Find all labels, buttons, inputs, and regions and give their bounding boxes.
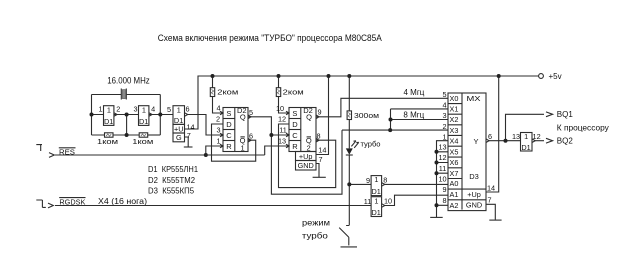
junction X7 bbox=[435, 171, 439, 175]
svg-text:D1: D1 bbox=[521, 143, 530, 152]
svg-text:3: 3 bbox=[442, 111, 446, 120]
junction 8MHz/C input bbox=[269, 133, 273, 137]
ground G of D1.3 bbox=[184, 137, 193, 147]
svg-text:5: 5 bbox=[167, 105, 171, 114]
wire +Up FF2 bbox=[316, 76, 329, 155]
svg-text:Схема включения режима "ТУРБО": Схема включения режима "ТУРБО" процессор… bbox=[158, 33, 382, 43]
svg-text:2: 2 bbox=[116, 105, 120, 114]
switch SA1 bbox=[302, 184, 357, 247]
svg-text:A2: A2 bbox=[450, 201, 459, 210]
svg-text:2ком: 2ком bbox=[283, 88, 304, 97]
wire 4MHz: Q2 to X0 bbox=[316, 98, 448, 117]
svg-text:Y: Y bbox=[473, 137, 478, 146]
resistor R5 300ом bbox=[347, 76, 379, 148]
junction rail/+Up D2.2 bbox=[327, 74, 331, 78]
svg-text:G: G bbox=[176, 133, 182, 142]
wire 8MHz: Q1 to C2 and X1-X3 bbox=[248, 117, 342, 194]
svg-text:Q: Q bbox=[240, 113, 246, 122]
wire X2 bbox=[391, 119, 449, 121]
wire osc left vertical bbox=[91, 95, 93, 136]
resistor R1 1ком bbox=[92, 133, 140, 146]
svg-text:D1: D1 bbox=[139, 117, 148, 126]
junction A2 bbox=[435, 203, 439, 207]
flip-flop D2.2 bbox=[276, 104, 326, 170]
svg-text:1: 1 bbox=[216, 137, 220, 146]
junction X3 bbox=[388, 128, 392, 132]
svg-text:6: 6 bbox=[488, 132, 492, 141]
wire +Up D3 bbox=[486, 76, 499, 192]
svg-text:8: 8 bbox=[442, 196, 446, 205]
svg-text:MX: MX bbox=[467, 94, 481, 103]
svg-text:Q: Q bbox=[306, 113, 312, 122]
svg-text:7: 7 bbox=[187, 131, 191, 140]
svg-text:BQ1: BQ1 bbox=[557, 110, 574, 119]
svg-text:14: 14 bbox=[487, 183, 495, 192]
svg-text:4 Мгц: 4 Мгц bbox=[404, 88, 425, 97]
wire X3 bbox=[342, 129, 448, 131]
svg-text:1ком: 1ком bbox=[132, 137, 153, 146]
wire osc right vertical bbox=[159, 95, 161, 136]
node turbo bbox=[347, 182, 351, 186]
svg-text:A1: A1 bbox=[450, 190, 459, 199]
svg-text:5: 5 bbox=[442, 90, 446, 99]
svg-text:режим: режим bbox=[302, 217, 330, 227]
wire C input FF2 bbox=[271, 134, 289, 136]
svg-text:X4: X4 bbox=[450, 136, 459, 145]
wire D2.2 D feedback loop bbox=[279, 124, 336, 188]
svg-text:11: 11 bbox=[279, 126, 287, 135]
svg-text:3: 3 bbox=[133, 105, 137, 114]
node turbo: to inverter input bbox=[349, 183, 371, 185]
svg-text:1: 1 bbox=[98, 105, 102, 114]
junction osc left bbox=[90, 113, 94, 117]
wire osc main bbox=[92, 114, 174, 116]
svg-text:D1 КР555ЛН1: D1 КР555ЛН1 bbox=[148, 165, 199, 174]
parts list bbox=[148, 165, 199, 195]
wire osc mid vertical bbox=[126, 115, 128, 136]
inverter D1.3 buffer bbox=[167, 105, 195, 143]
svg-text:8: 8 bbox=[383, 176, 387, 185]
svg-text:X3: X3 bbox=[450, 126, 459, 135]
svg-text:+Up: +Up bbox=[299, 152, 313, 161]
svg-text:BQ2: BQ2 bbox=[557, 137, 574, 146]
svg-text:X5: X5 bbox=[450, 147, 459, 156]
junction X6 bbox=[435, 161, 439, 165]
wire Y output bbox=[489, 140, 521, 142]
svg-text:турбо: турбо bbox=[302, 230, 328, 240]
wire 8MHz bus X1-X3 bbox=[390, 109, 392, 130]
junction Y/BQ1 bbox=[504, 139, 508, 143]
svg-text:10: 10 bbox=[276, 104, 284, 113]
svg-text:11: 11 bbox=[439, 164, 447, 173]
svg-text:X6: X6 bbox=[450, 158, 459, 167]
wire D2.1 R input bbox=[206, 146, 223, 155]
svg-text:C: C bbox=[226, 131, 232, 140]
wire pin6 to C inputs bbox=[188, 115, 224, 136]
wire LED to node bbox=[348, 155, 350, 184]
svg-text:R: R bbox=[226, 142, 232, 151]
svg-text:7: 7 bbox=[488, 195, 492, 204]
svg-text:4: 4 bbox=[442, 101, 446, 110]
flip-flop D2.1 bbox=[216, 104, 253, 153]
+5v terminal bbox=[539, 72, 562, 81]
LED турбо bbox=[346, 139, 381, 155]
svg-text:3: 3 bbox=[216, 126, 220, 135]
svg-text:2: 2 bbox=[216, 115, 220, 124]
svg-text:4: 4 bbox=[216, 104, 220, 113]
wire BQ1 branch bbox=[506, 114, 545, 140]
svg-text:13: 13 bbox=[278, 137, 286, 146]
inverter D1.2 bbox=[133, 105, 155, 127]
svg-text:X0: X0 bbox=[450, 94, 459, 103]
svg-text:9: 9 bbox=[442, 185, 446, 194]
svg-text:14: 14 bbox=[318, 145, 326, 154]
wire BQ2 bbox=[535, 140, 544, 142]
ground GND FF2 bbox=[313, 164, 326, 178]
svg-text:1: 1 bbox=[442, 132, 446, 141]
junction rail/R3 bbox=[211, 74, 215, 78]
svg-text:10: 10 bbox=[384, 197, 392, 206]
svg-text:S: S bbox=[226, 109, 231, 118]
svg-text:R: R bbox=[292, 142, 298, 151]
+5v rail wire bbox=[185, 76, 539, 129]
svg-text:D3: D3 bbox=[469, 172, 479, 181]
svg-text:+5v: +5v bbox=[549, 72, 562, 81]
wire X4 tie bbox=[437, 141, 449, 217]
svg-text:2: 2 bbox=[442, 122, 446, 131]
inverter D1.5 bbox=[364, 196, 392, 217]
crystal ZQ1 16.000 MHz bbox=[92, 75, 161, 99]
inverter D1.4 bbox=[366, 175, 387, 196]
svg-text:1: 1 bbox=[241, 143, 245, 152]
svg-text:1: 1 bbox=[374, 196, 378, 205]
wire X1 bbox=[391, 108, 449, 110]
inverter D1.6 bbox=[512, 132, 541, 152]
svg-text:1ком: 1ком bbox=[97, 137, 118, 146]
svg-text:12: 12 bbox=[533, 132, 541, 141]
svg-text:A0: A0 bbox=[450, 179, 459, 188]
svg-text:X4 (16 нога): X4 (16 нога) bbox=[98, 197, 147, 206]
wire D2.1 D feedback loop bbox=[212, 124, 256, 161]
output BQ1 bbox=[546, 110, 573, 119]
svg-text:D2 К555ТМ2: D2 К555ТМ2 bbox=[148, 176, 196, 185]
resistor R3 2ком bbox=[210, 76, 238, 113]
svg-text:X7: X7 bbox=[450, 169, 459, 178]
junction rail/+Up D3 bbox=[497, 74, 501, 78]
svg-text:GND: GND bbox=[298, 161, 314, 170]
junction rail/R5 bbox=[347, 74, 351, 78]
input RES bbox=[36, 145, 264, 158]
resistor R4 2ком bbox=[276, 76, 303, 113]
svg-text:300ом: 300ом bbox=[354, 111, 379, 120]
svg-text:4: 4 bbox=[151, 105, 155, 114]
svg-text:1: 1 bbox=[107, 105, 111, 114]
svg-text:D1: D1 bbox=[372, 208, 381, 217]
svg-text:D1: D1 bbox=[372, 187, 381, 196]
svg-text:1: 1 bbox=[374, 175, 378, 184]
svg-text:1: 1 bbox=[177, 105, 181, 114]
svg-text:X1: X1 bbox=[450, 105, 459, 114]
svg-text:12: 12 bbox=[438, 153, 446, 162]
inverter D1.1 bbox=[98, 105, 120, 127]
ground bus X5-X7 A2 bbox=[430, 152, 448, 218]
svg-text:D3 К555КП5: D3 К555КП5 bbox=[148, 186, 195, 195]
+Up / GND cells bbox=[296, 152, 317, 161]
svg-text:GND: GND bbox=[466, 201, 482, 210]
junction RES/R input bbox=[204, 153, 208, 157]
svg-text:7: 7 bbox=[319, 155, 323, 164]
junction osc bottom bbox=[125, 133, 129, 137]
svg-text:9: 9 bbox=[366, 176, 370, 185]
svg-text:12: 12 bbox=[278, 115, 286, 124]
svg-text:6: 6 bbox=[185, 105, 189, 114]
svg-text:S: S bbox=[292, 109, 297, 118]
svg-text:8 Мгц: 8 Мгц bbox=[403, 110, 424, 119]
svg-text:9: 9 bbox=[317, 108, 321, 117]
svg-text:D1: D1 bbox=[104, 117, 113, 126]
junction X5 bbox=[435, 150, 439, 154]
wire A0 bbox=[385, 183, 448, 185]
wire A1 bbox=[385, 195, 448, 205]
svg-text:X2: X2 bbox=[450, 115, 459, 124]
output BQ2 bbox=[546, 137, 573, 146]
svg-text:16.000 MHz: 16.000 MHz bbox=[107, 75, 150, 86]
wire D2.2 R input bbox=[265, 146, 289, 155]
svg-text:11: 11 bbox=[364, 197, 372, 206]
resistor R2 1ком bbox=[132, 133, 160, 146]
svg-text:2ком: 2ком bbox=[217, 88, 238, 97]
svg-text:+Up: +Up bbox=[467, 190, 481, 199]
junction osc right bbox=[158, 113, 162, 117]
svg-text:D1: D1 bbox=[174, 116, 183, 125]
svg-text:10: 10 bbox=[438, 175, 446, 184]
junction X2 bbox=[389, 118, 393, 122]
svg-text:D: D bbox=[292, 120, 298, 129]
ground GND D3 bbox=[486, 204, 502, 220]
input RGDSK bbox=[36, 197, 371, 208]
svg-text:1: 1 bbox=[142, 105, 146, 114]
junction rail/R4 bbox=[277, 74, 281, 78]
svg-text:D: D bbox=[226, 120, 232, 129]
junction osc mid bbox=[125, 113, 129, 117]
svg-text:1: 1 bbox=[524, 132, 528, 141]
svg-text:C: C bbox=[292, 131, 298, 140]
mux D3 bbox=[438, 90, 495, 211]
svg-text:турбо: турбо bbox=[361, 139, 381, 148]
svg-text:13: 13 bbox=[512, 132, 520, 141]
svg-text:13: 13 bbox=[438, 142, 446, 151]
svg-text:К процессору: К процессору bbox=[557, 123, 609, 132]
